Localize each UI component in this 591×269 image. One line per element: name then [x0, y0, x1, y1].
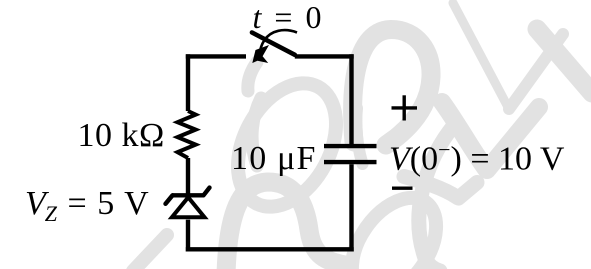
watermark 4 stem: [537, 29, 591, 93]
switch SW1 blade: [252, 33, 295, 55]
label V(0-) = 10 V: [389, 137, 564, 178]
watermark 4 bar: [509, 34, 563, 109]
label 10 uF: [231, 140, 317, 178]
wire top-left segment: [188, 56, 246, 58]
watermark inner arc: [252, 98, 261, 166]
watermark S-curve: [419, 124, 455, 269]
watermark 2024 strokes: [133, 3, 591, 269]
wire left vertical lower (zener to bottom): [186, 220, 190, 252]
wire right vertical upper (to capacitor): [349, 54, 353, 144]
zener left wing: [166, 195, 173, 204]
wire: left + bottom + verticals: [186, 54, 354, 251]
capacitor C1 plates: [324, 146, 377, 162]
switch arrowhead: [252, 45, 269, 63]
watermark upper-left arc: [248, 62, 257, 91]
label 10 kOhm: [78, 117, 165, 155]
zener right wing: [204, 188, 210, 196]
watermark bottom ring (right): [335, 182, 454, 269]
zener triangle: [172, 197, 205, 217]
wire left vertical mid (resistor to zener): [186, 158, 190, 194]
minus sign: [392, 186, 413, 189]
wire bottom: [186, 247, 354, 251]
watermark 4 thin diagonal: [453, 3, 509, 109]
zener diode D1: [166, 188, 210, 218]
zener cathode bar: [172, 193, 204, 197]
watermark big ring (glyph 0): [218, 67, 356, 224]
label Vz = 5 V: [25, 185, 150, 228]
watermark top arch: [353, 30, 431, 146]
wire right vertical lower (capacitor to bottom): [349, 164, 353, 251]
resistor R1 10k zigzag: [178, 111, 196, 158]
watermark bottom arch (left): [226, 182, 345, 269]
capacitor top plate: [324, 144, 377, 148]
watermark small V: [404, 177, 477, 199]
capacitor bottom plate: [324, 160, 377, 164]
watermark bottom-left stripe: [133, 235, 167, 269]
plus sign: [392, 95, 418, 120]
watermark leg echo arc: [356, 108, 362, 164]
switch closing arrow: [259, 30, 297, 55]
wire top-right segment: [295, 56, 352, 58]
watermark checkmark (glyph 2): [442, 102, 539, 170]
wire left vertical upper (to resistor): [186, 54, 190, 111]
label t=0: [253, 0, 324, 36]
